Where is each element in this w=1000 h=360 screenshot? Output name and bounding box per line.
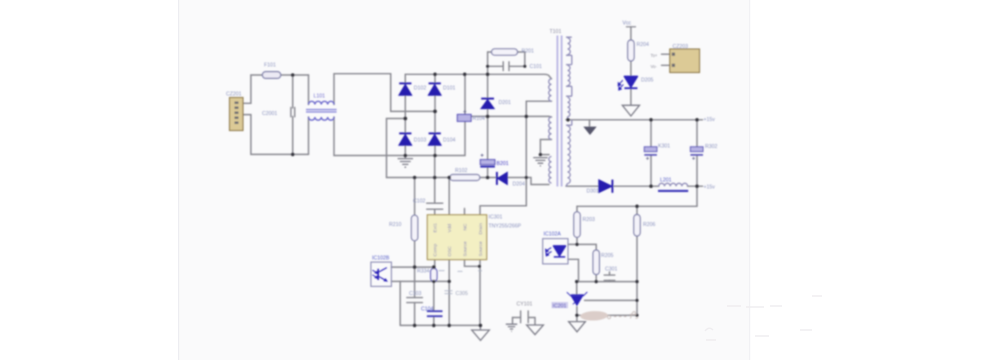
svg-text:C305: C305 [456,291,469,297]
svg-text:C2001: C2001 [262,111,277,117]
svg-text:T101: T101 [550,29,562,35]
svg-text:R204: R204 [637,42,650,48]
svg-text:D102: D102 [414,85,427,91]
svg-text:TNY255/266P: TNY255/266P [489,224,522,230]
svg-text:R302: R302 [705,144,718,150]
svg-text:CZ203: CZ203 [673,44,689,50]
svg-text:D101: D101 [443,85,456,91]
svg-text:IC301: IC301 [489,215,503,221]
svg-text:D201: D201 [499,100,512,106]
svg-text:R210: R210 [389,222,402,228]
svg-text:R206: R206 [643,222,656,228]
svg-text:Vdd: Vdd [447,224,453,233]
svg-text:Source: Source [478,241,484,257]
svg-text:R334: R334 [417,269,430,275]
svg-text:C104: C104 [421,306,434,312]
svg-text:R102: R102 [455,168,468,174]
svg-text:D301: D301 [587,188,600,194]
svg-text:K301: K301 [658,143,670,149]
svg-text:R203: R203 [583,217,596,223]
svg-text:L201: L201 [660,177,672,183]
svg-text:Source: Source [462,241,468,257]
svg-text:Drain: Drain [478,223,484,235]
svg-text:R205: R205 [601,253,614,259]
svg-text:C103: C103 [409,291,422,297]
svg-text:Vcc: Vcc [623,21,632,27]
svg-text:NC: NC [462,223,468,230]
svg-text:F101: F101 [264,63,276,69]
svg-text:To+: To+ [651,53,658,58]
svg-text:OSC: OSC [447,246,453,257]
svg-text:IC102B: IC102B [372,256,390,262]
svg-text:B201: B201 [497,161,509,167]
svg-text:D103: D103 [414,137,427,143]
svg-text:D104: D104 [443,137,456,143]
svg-text:+15v: +15v [704,117,716,123]
svg-text:IC201: IC201 [553,303,567,309]
svg-text:+15v: +15v [704,184,716,190]
svg-text:Ext1: Ext1 [432,223,438,233]
svg-text:Comp: Comp [432,243,438,256]
svg-text:C301: C301 [605,267,618,273]
svg-text:CY101: CY101 [517,302,533,308]
svg-text:R104: R104 [473,116,486,122]
svg-text:IC102A: IC102A [544,231,562,237]
svg-text:R201: R201 [522,48,535,54]
svg-text:D205: D205 [641,77,654,83]
svg-text:CZ201: CZ201 [226,92,242,98]
svg-text:Vo-: Vo- [651,64,658,69]
svg-text:D204: D204 [513,181,526,187]
svg-text:L101: L101 [314,94,326,100]
svg-text:C102: C102 [413,199,426,205]
svg-text:C101: C101 [530,64,543,70]
